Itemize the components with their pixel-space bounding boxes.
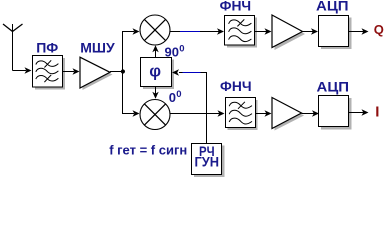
svg-text:0: 0 bbox=[179, 44, 184, 55]
junction dot bbox=[121, 69, 125, 73]
mixer 2 (bottom) bbox=[140, 100, 170, 130]
wire FNCH1 to amp1 bbox=[255, 31, 267, 33]
wire trunk up to mixer 1 bbox=[123, 32, 135, 72]
wire ADC2 to I output bbox=[349, 112, 364, 114]
svg-text:ПФ: ПФ bbox=[36, 39, 58, 55]
wire VCO to phi input bbox=[179, 73, 207, 144]
svg-text:0: 0 bbox=[169, 90, 176, 105]
wire MSHU to junction bbox=[110, 71, 123, 73]
wire ADC1 to Q output bbox=[349, 31, 364, 33]
wire phi to mixer1 (90 deg) bbox=[155, 50, 157, 58]
lowpass filter FNCH2 bbox=[226, 98, 258, 131]
wire phi to mixer2 (0 deg) bbox=[155, 87, 157, 95]
svg-text:I: I bbox=[375, 104, 379, 121]
wire antenna to PF input bbox=[13, 67, 32, 73]
lowpass filter FNCH1 bbox=[225, 16, 258, 48]
amplifier A2 (bottom) bbox=[272, 98, 304, 131]
amplifier MSHU (LNA) bbox=[80, 57, 113, 90]
svg-text:МШУ: МШУ bbox=[80, 40, 115, 56]
wire amp1 to ADC1 bbox=[303, 31, 314, 33]
wire trunk down to mixer 2 bbox=[123, 72, 135, 114]
wire amp2 to ADC2 bbox=[302, 113, 315, 115]
mixer 1 (top) bbox=[140, 15, 170, 45]
svg-text:φ: φ bbox=[149, 63, 161, 81]
wire FNCH2 to amp2 bbox=[256, 113, 267, 115]
amplifier A1 (top) bbox=[272, 15, 305, 50]
svg-text:ГУН: ГУН bbox=[195, 154, 220, 170]
svg-text:Q: Q bbox=[374, 22, 384, 37]
svg-text:f гет = f сигн: f гет = f сигн bbox=[109, 143, 187, 158]
wire mixer1 to FNCH1 bbox=[170, 31, 219, 33]
svg-text:90: 90 bbox=[165, 45, 179, 60]
bandpass filter PF bbox=[33, 56, 66, 90]
svg-text:ФНЧ: ФНЧ bbox=[220, 0, 252, 13]
svg-text:АЦП: АЦП bbox=[317, 78, 350, 94]
blue wire segment on phi input bbox=[183, 72, 201, 74]
VCO box RCh GUN bbox=[192, 144, 225, 178]
phase shifter box phi bbox=[141, 58, 175, 90]
svg-text:ФНЧ: ФНЧ bbox=[220, 78, 252, 94]
antenna bbox=[3, 24, 23, 71]
wire mixer2 to FNCH2 bbox=[170, 113, 220, 115]
blue wire segment on mixer1 output bbox=[180, 31, 200, 33]
ADC2 box bbox=[319, 96, 352, 130]
svg-text:АЦП: АЦП bbox=[316, 0, 349, 13]
ADC1 box bbox=[319, 16, 352, 50]
wire PF to MSHU bbox=[63, 68, 80, 74]
svg-text:0: 0 bbox=[176, 89, 181, 100]
